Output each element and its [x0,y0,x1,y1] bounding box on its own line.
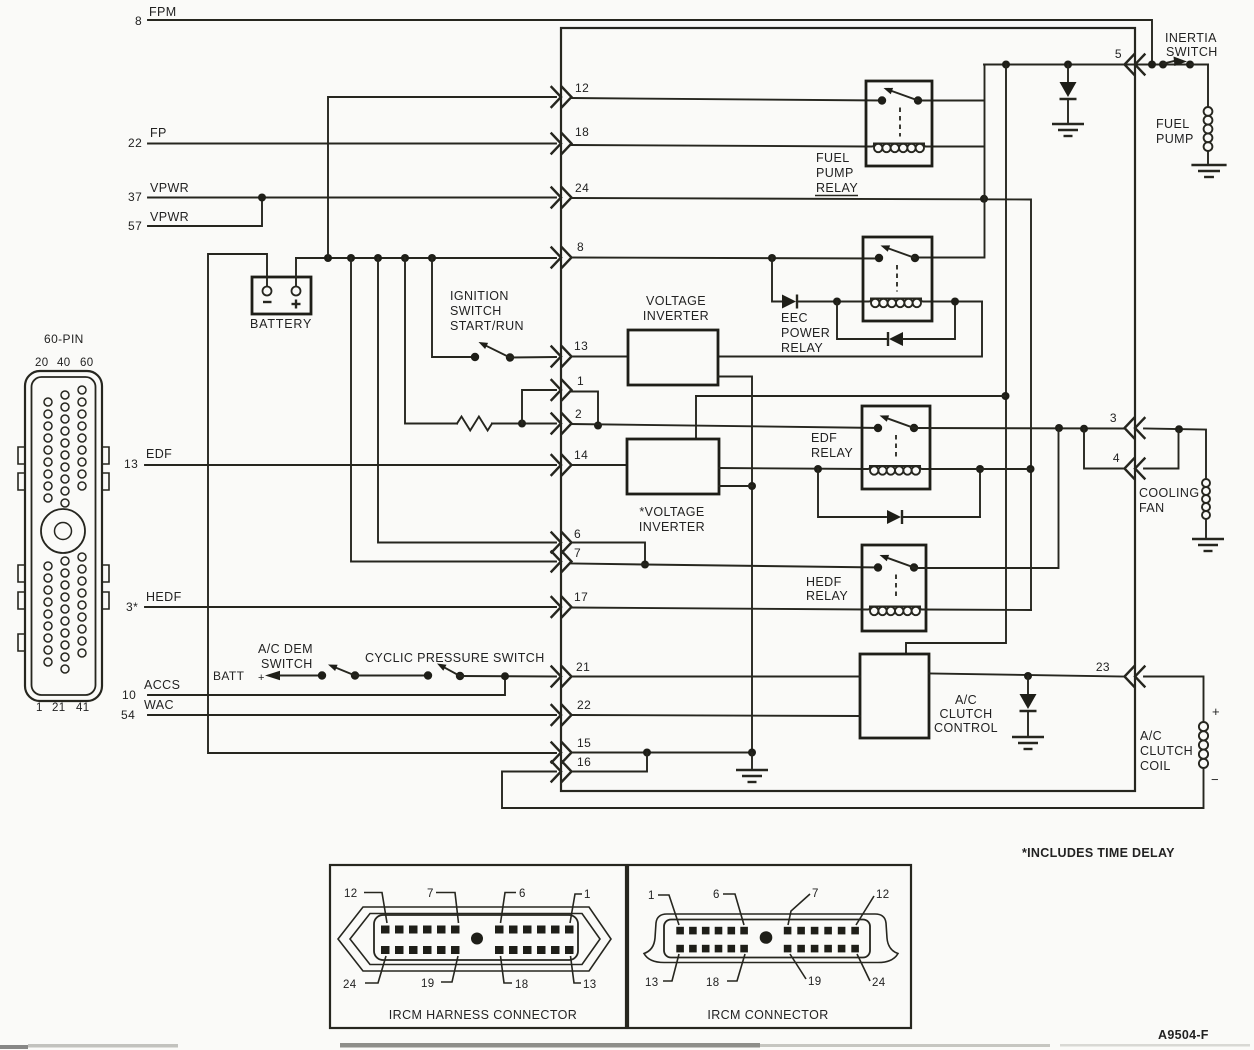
svg-text:RELAY: RELAY [816,181,858,195]
wire pin-5 node row [984,64,1208,66]
junction riser / inverter-2 feed line [1002,392,1010,400]
wire internal pins 1-2 bridge [571,392,598,426]
svg-text:24: 24 [343,979,357,991]
junction suppression diode top [1064,61,1072,69]
svg-text:INVERTER: INVERTER [639,520,705,534]
svg-text:14: 14 [574,448,588,462]
J3 pins [676,927,684,935]
svg-text:2: 2 [575,407,582,421]
svg-text:*INCLUDES TIME DELAY: *INCLUDES TIME DELAY [1022,846,1175,860]
relay K3 (EDF) contacts [874,424,882,432]
svg-text:20: 20 [35,357,49,369]
IRCM pin 12 connector arrow [552,87,562,107]
svg-text:19: 19 [808,976,822,988]
junction battery rail x378 [374,254,382,262]
svg-text:18: 18 [706,977,720,989]
wire battery negative down to IRCM pin 15 (ground return) [208,254,556,753]
battery B1 negative terminal [263,287,272,296]
svg-text:INVERTER: INVERTER [643,309,709,323]
wire to fuel pump [1190,65,1208,107]
junction EEC coil left / flyback [833,298,841,306]
svg-text:FP: FP [150,126,167,140]
svg-text:7: 7 [427,888,434,900]
relay K1 (fuel pump) box [866,81,932,166]
ground at suppression diode [1052,123,1084,125]
svg-text:EEC: EEC [781,311,808,325]
junction battery rail x351 [347,254,355,262]
svg-text:16: 16 [577,755,591,769]
relay K4 (HEDF) contacts [874,563,882,571]
svg-text:1: 1 [584,889,591,901]
wire feed line to voltage inverter U2 top [696,395,1005,397]
IRCM harness connector J2 panel [330,865,626,1028]
svg-text:7: 7 [812,888,819,900]
wire HEDF N.O. contact up to pin-3 row [913,428,1059,568]
wire IRCM pin 17 to HEDF relay coil [571,608,866,610]
junction pin-4 loop on pin-3 row [1080,425,1088,433]
diode CR4 (EDF relay flyback) [887,510,901,524]
junction battery rail x405 [401,254,409,262]
svg-text:EDF: EDF [146,447,172,461]
wire EEC relay N.O. contact to riser [916,257,983,259]
svg-text:60-PIN: 60-PIN [44,332,84,346]
svg-text:FPM: FPM [149,5,177,19]
svg-text:37: 37 [128,190,142,204]
svg-text:21: 21 [576,660,590,674]
svg-text:15: 15 [577,736,591,750]
svg-text:BATT: BATT [213,669,245,683]
IRCM pin 2 connector arrow [552,414,562,434]
junction battery rail x432 [428,254,436,262]
svg-text:41: 41 [76,702,90,714]
svg-text:RELAY: RELAY [781,341,823,355]
IRCM pin 3 connector arrow [1135,418,1145,438]
svg-text:CONTROL: CONTROL [934,721,998,735]
wire A/C clutch coil return rail [502,769,1204,808]
ignition switch S1 feed wire [432,258,471,357]
svg-text:1: 1 [648,890,655,902]
svg-text:18: 18 [515,979,529,991]
svg-text:54: 54 [121,708,135,722]
wire VPWR 37 to IRCM pin 24 [148,197,556,199]
svg-text:+: + [1212,704,1220,719]
svg-text:4: 4 [1113,451,1120,465]
junction EDF flyback right [976,465,984,473]
svg-text:START/RUN: START/RUN [450,319,524,333]
ground at cooling fan [1192,538,1224,540]
wire EDF coil right to pin-24 riser [926,468,1031,470]
wire IRCM pin 24 riser to relay coils [571,198,1031,610]
svg-text:CLUTCH: CLUTCH [1140,744,1193,758]
A/C demand switch S2 [318,671,326,679]
svg-text:CLUTCH: CLUTCH [939,707,992,721]
svg-text:12: 12 [344,888,358,900]
diode CR3 (EEC relay flyback) [887,332,889,346]
svg-text:6: 6 [713,889,720,901]
wire rail drop to IRCM pin 6 [378,258,556,543]
svg-text:IGNITION: IGNITION [450,289,509,303]
wire battery positive to rail [295,258,297,286]
wire IRCM pin 7 to HEDF relay common contact [571,564,880,568]
svg-text:13: 13 [574,339,588,353]
svg-text:12: 12 [876,889,890,901]
svg-text:17: 17 [574,590,588,604]
junction FPM drop [1148,61,1156,69]
relay K2 (EEC power) contacts [875,254,883,262]
junction pins 1-2 bridge [518,420,526,428]
svg-text:1: 1 [577,374,584,388]
relay K2 (EEC power) coil [864,299,871,302]
svg-text:13: 13 [645,977,659,989]
svg-text:21: 21 [52,702,66,714]
svg-text:A/C: A/C [955,693,977,707]
wire A/C demand switch to cyclic pressure switch [355,675,428,677]
junction battery rail x328 [324,254,332,262]
svg-text:VPWR: VPWR [150,181,189,195]
wire FP to IRCM pin 18 [148,143,556,145]
IRCM pin 13 connector arrow [552,347,562,367]
svg-text:3*: 3* [126,600,138,614]
wire ground node stub [751,753,753,768]
wire ACCS joins pin-21 line [148,676,505,695]
wire EEC flyback loop left leg [837,302,888,340]
svg-text:BATTERY: BATTERY [250,317,312,331]
svg-text:12: 12 [575,81,589,95]
diode CR2 (EEC power relay coil feed) [782,295,796,309]
wire IRCM pin 14 to voltage inverter U2 [571,464,627,466]
wire HEDF coil right to pin-24 riser [922,609,1031,612]
junction pins 6/7 [641,561,649,569]
relay K3 (EDF) box [862,406,930,489]
wire IRCM pin 16 tie to pin 15 [571,753,647,772]
IRCM module boundary box [561,28,1135,791]
relay K4 (HEDF) box [862,545,926,631]
junction EDF flyback left [814,465,822,473]
wire IRCM pin 12 to fuel pump relay common contact [571,98,882,101]
IRCM connector J3 body [644,914,898,963]
svg-text:6: 6 [574,527,581,541]
A/C clutch coil L1 [1199,722,1208,731]
svg-text:24: 24 [575,181,589,195]
svg-text:COIL: COIL [1140,759,1171,773]
cyclic pressure switch S3 [424,671,432,679]
svg-text:FUEL: FUEL [816,151,850,165]
junction internal ground node [748,749,756,757]
IRCM pin 24 connector arrow [552,188,562,208]
svg-text:+: + [258,672,265,684]
junction fan feed [1175,425,1183,433]
junction HEDF riser on pin-3 row [1055,424,1063,432]
junction ACCS / pin 21 [501,672,509,680]
wire U2 lower output to ground riser [719,485,752,487]
wire battery-positive rail to IRCM pin 8 [296,257,556,259]
junction EEC coil right / flyback [951,298,959,306]
wire fuel pump relay coil right to riser [926,146,984,148]
voltage inverter U1 box [628,330,718,385]
wire IRCM pin 18 to fuel pump relay coil [571,145,866,147]
svg-text:10: 10 [122,688,136,702]
svg-text:VOLTAGE: VOLTAGE [646,294,706,308]
IRCM pin 23 connector arrow [1135,667,1145,687]
resistor R1 [457,417,492,431]
wire IRCM pin 23 to A/C clutch coil [1144,677,1204,722]
svg-text:*VOLTAGE: *VOLTAGE [639,505,704,519]
wire FPM: ECM pin 8 to top-right corner, down to inertia-switch node [148,20,1152,65]
svg-text:7: 7 [574,546,581,560]
IRCM pin 15 connector arrow [552,743,562,763]
svg-text:60: 60 [80,357,94,369]
svg-text:FUEL: FUEL [1156,117,1190,131]
IRCM pin 17 connector arrow [552,597,562,617]
ignition switch S1 [471,353,479,361]
IRCM pin 5 connector arrow [1135,55,1145,75]
svg-text:A9504-F: A9504-F [1158,1028,1209,1042]
svg-text:HEDF: HEDF [806,575,842,589]
svg-text:3: 3 [1110,411,1117,425]
wire long riser pin-5 node down to A/C clutch control [906,65,1006,655]
IRCM pin 8 connector arrow [552,248,562,268]
wire rail drop to IRCM pin 7 [351,258,556,562]
diode CR5 (A/C clutch suppression) [1027,676,1029,694]
IRCM pin 6 connector arrow [552,533,562,553]
svg-text:HEDF: HEDF [146,590,182,604]
wire feed down to EEC diode [772,258,782,302]
ground at fuel pump [1191,164,1226,166]
scan artifact band at page bottom [340,1043,760,1048]
wire EDF to IRCM pin 14 [145,464,556,466]
cooling fan M2 coil [1202,479,1210,487]
svg-text:RELAY: RELAY [806,589,848,603]
relay K2 (EEC power) box [863,237,932,321]
IRCM pin 1 connector arrow [552,380,562,400]
wire IRCM pin 6 jog to pin 7 line [571,543,645,565]
svg-text:19: 19 [421,978,435,990]
svg-text:−: − [1211,772,1219,787]
svg-text:A/C DEM: A/C DEM [258,642,313,656]
IRCM pin 14 connector arrow [552,455,562,475]
relay K1 (fuel pump) coil [867,144,874,147]
svg-text:SWITCH: SWITCH [261,657,313,671]
inertia switch S4 [1159,61,1167,69]
relay K1 (fuel pump) contacts [878,96,886,104]
svg-text:CYCLIC PRESSURE SWITCH: CYCLIC PRESSURE SWITCH [365,651,545,665]
diode CR1 (fuel pump suppression) [1067,65,1069,83]
relay K4 (HEDF) armature link (dashed) [895,575,897,600]
svg-text:ACCS: ACCS [144,678,180,692]
battery B1 positive terminal [292,287,301,296]
wire EDF flyback loop [818,469,886,517]
svg-text:1: 1 [36,702,43,714]
junction pin 24 riser / EDF coil [1027,465,1035,473]
wire A/C clutch control output to IRCM pin 23 [929,674,1124,677]
IRCM connector J3 panel [628,865,911,1028]
svg-text:A/C: A/C [1140,729,1162,743]
junction pin-5 node riser [1002,61,1010,69]
svg-text:INERTIA: INERTIA [1165,31,1217,45]
wire EDF N.O. contact to pins 3/4 [915,427,1125,430]
relay K4 (HEDF) coil [863,607,870,610]
svg-text:WAC: WAC [144,698,174,712]
wire EEC coil right down to pin 13 line [718,302,982,357]
wire diode to EEC relay coil [797,301,866,303]
relay K3 (EDF) coil [863,466,870,469]
wire U1 output down to ground bus riser [718,377,752,754]
svg-text:VPWR: VPWR [150,210,189,224]
svg-text:SWITCH: SWITCH [450,304,502,318]
IRCM pin 21 connector arrow [552,667,562,687]
wire EEC flyback loop right leg [903,302,955,340]
svg-text:5: 5 [1115,47,1122,61]
wire EEC coil right [926,301,982,303]
J2 pins [381,926,390,934]
fuel pump M1 coil [1204,107,1213,116]
wire cyclic pressure switch to IRCM pin 21 [460,675,556,678]
IRCM harness connector J2 body [338,907,611,971]
svg-text:13: 13 [583,979,597,991]
junction A/C output diode [1024,672,1032,680]
svg-text:40: 40 [57,357,71,369]
svg-text:6: 6 [519,888,526,900]
junction VPWR [258,194,266,202]
wire rail riser to IRCM pin 12 [328,97,556,258]
svg-text:IRCM HARNESS CONNECTOR: IRCM HARNESS CONNECTOR [389,1008,577,1022]
svg-text:18: 18 [575,125,589,139]
IRCM pin 7 connector arrow [552,552,562,572]
svg-text:FAN: FAN [1139,501,1165,515]
wire IRCM pin 15 to internal ground [571,752,752,754]
wire IRCM pin 8 to EEC power relay common contact [571,258,881,259]
wire IRCM pin 2 to EDF relay common contact [571,424,880,428]
wire HEDF to IRCM pin 17 [145,606,556,608]
IRCM pin 16 connector arrow [552,762,562,782]
voltage inverter U2 box [627,439,719,494]
wire to battery (arrow) [265,671,280,681]
wire ignition switch to IRCM pin 13 [510,356,556,359]
wire pin 4 parallel loop (right) [1144,429,1179,468]
relay K1 (fuel pump) armature link (dashed) [899,108,901,137]
svg-text:PUMP: PUMP [1156,132,1194,146]
wire U2 output to EDF relay coil [719,468,866,469]
junction pin 15/16 tie [643,749,651,757]
wire WAC to IRCM pin 22 [148,714,556,716]
wire IRCM pin 13 to voltage inverter U1 [571,356,628,358]
IRCM pin 22 connector arrow [552,705,562,725]
svg-text:8: 8 [135,14,142,28]
wire VPWR 57 joins VPWR 37 [148,198,262,227]
battery B1 box [252,277,311,314]
60-pin ECM connector J1 [18,332,109,714]
svg-text:57: 57 [128,219,142,233]
junction U2 output / ground riser [748,482,756,490]
svg-text:23: 23 [1096,660,1110,674]
wire riser x984 (pin-5 node to EEC contact) [984,65,986,258]
junction internal bridge on pin 2 line [594,422,602,430]
relay K2 (EEC power) armature link (dashed) [896,265,898,292]
svg-text:8: 8 [577,240,584,254]
svg-text:SWITCH: SWITCH [1166,45,1218,59]
wire bridge to IRCM pin 1 [522,390,556,424]
svg-text:13: 13 [124,457,138,471]
wire resistor to IRCM pin 2 [492,423,556,425]
svg-text:COOLING: COOLING [1139,486,1199,500]
ground internal (pins 15/16) [736,769,768,771]
wire IRCM pin 21 to A/C clutch control [571,676,860,678]
wire rail drop to resistor [405,258,457,424]
wire pin 3/4 parallel loop (left) [1084,429,1124,469]
svg-text:IRCM CONNECTOR: IRCM CONNECTOR [707,1008,828,1022]
svg-text:PUMP: PUMP [816,166,854,180]
junction EEC relay feed [768,254,776,262]
junction pin 24 / x984 riser [980,195,988,203]
svg-text:POWER: POWER [781,326,830,340]
svg-text:22: 22 [128,136,142,150]
IRCM pin 4 connector arrow [1135,459,1145,479]
ground at A/C diode [1012,736,1044,738]
svg-text:22: 22 [577,698,591,712]
wire fuel pump relay N.O. contact to pin-5 node riser [918,100,985,102]
svg-text:24: 24 [872,977,886,989]
svg-text:RELAY: RELAY [811,446,853,460]
wire IRCM pin 22 to A/C clutch control [571,715,860,716]
svg-text:EDF: EDF [811,431,837,445]
wire pin 3 to cooling fan [1144,429,1206,479]
IRCM pin 18 connector arrow [552,134,562,154]
A/C clutch control U3 box [860,654,929,738]
relay K3 (EDF) armature link (dashed) [895,435,897,459]
